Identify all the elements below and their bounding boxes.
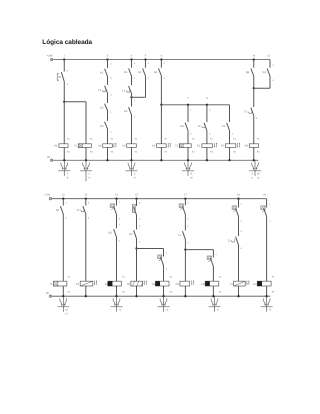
svg-text:H2: H2 <box>201 283 205 286</box>
svg-text:A2: A2 <box>134 151 137 154</box>
svg-text:2: 2 <box>269 220 271 223</box>
svg-text:13: 13 <box>65 308 68 311</box>
svg-text:C1: C1 <box>222 125 226 128</box>
coil C1 ladder2 <box>180 281 190 286</box>
coil C1 <box>202 144 213 148</box>
svg-text:1: 1 <box>187 225 189 228</box>
svg-text:4: 4 <box>134 77 136 80</box>
coil T2 ladder2 (timer) <box>54 281 67 286</box>
wire rung11 loop return <box>269 76 271 88</box>
wire to bottom rail 2 <box>136 286 138 296</box>
svg-text:2: 2 <box>110 131 112 134</box>
node junctions bottom rail 1 <box>63 159 65 161</box>
contact B1 rung14 <box>114 229 117 237</box>
svg-text:2: 2 <box>190 133 192 136</box>
wire <box>116 215 118 229</box>
svg-text:H3: H3 <box>253 283 257 286</box>
svg-text:3: 3 <box>240 230 242 233</box>
node parallel loop <box>253 87 255 89</box>
wire rung5 down + bridge <box>145 76 147 97</box>
wire to junction <box>136 239 138 249</box>
svg-text:9: 9 <box>89 177 91 180</box>
contact cross-reference K1 <box>63 160 65 176</box>
wire <box>131 76 133 85</box>
contact cross-reference H1 ladder2 <box>163 296 165 312</box>
svg-text:T2: T2 <box>228 239 232 242</box>
wire <box>184 215 186 231</box>
svg-text:K2: K2 <box>129 233 133 236</box>
wire rung12 top <box>62 199 64 206</box>
svg-text:18: 18 <box>237 194 240 197</box>
svg-text:A1: A1 <box>122 276 125 279</box>
svg-text:3: 3 <box>119 218 121 221</box>
svg-text:K1: K1 <box>124 71 128 74</box>
wire to bottom rail <box>131 147 133 160</box>
svg-text:A1: A1 <box>90 138 93 141</box>
contact Q1 rung10 <box>251 68 254 76</box>
wire to coil <box>131 115 133 144</box>
wire branch to H1 <box>137 248 164 250</box>
svg-text:20: 20 <box>263 194 266 197</box>
svg-text:A1: A1 <box>210 138 213 141</box>
svg-text:C1: C1 <box>176 283 180 286</box>
contact cross-reference H3 ladder2 <box>266 296 268 312</box>
svg-text:2: 2 <box>67 172 69 175</box>
svg-text:+2: +2 <box>165 308 168 311</box>
svg-text:A2: A2 <box>67 151 70 154</box>
wire branch to coil H1 <box>163 266 165 282</box>
contact K2 rung15 <box>134 230 137 238</box>
svg-text:K6: K6 <box>152 145 156 148</box>
timer contact T1 rung4 <box>129 86 132 94</box>
svg-text:P2: P2 <box>127 283 131 286</box>
wire to junction <box>184 240 186 250</box>
wire drop9 corner <box>229 105 231 122</box>
sensor contact rung20 <box>261 206 265 209</box>
svg-text:A1: A1 <box>110 138 113 141</box>
svg-text:1: 1 <box>65 201 67 204</box>
light-barrier sensor contact rung15 <box>132 204 135 212</box>
contact K3 rung4 <box>129 107 132 115</box>
svg-text:2: 2 <box>240 220 242 223</box>
svg-text:4: 4 <box>187 218 189 221</box>
svg-text:1: 1 <box>119 223 121 226</box>
wire to coil K7 <box>229 131 231 144</box>
svg-text:Q1: Q1 <box>246 71 250 74</box>
svg-text:4: 4 <box>209 133 211 136</box>
coil K5 <box>127 144 137 148</box>
svg-text:1: 1 <box>148 62 150 65</box>
svg-text:P1: P1 <box>76 283 80 286</box>
contact K2 rung5 <box>143 68 146 76</box>
wire branch to coil H2 <box>212 267 214 282</box>
svg-text:8: 8 <box>191 172 193 175</box>
svg-text:A2: A2 <box>164 151 167 154</box>
wire rung17 top <box>184 199 186 206</box>
svg-text:4: 4 <box>240 247 242 250</box>
wire rung4 top <box>131 60 133 68</box>
wire rung5 top <box>145 60 147 68</box>
wire rung15 main to coil <box>136 249 138 282</box>
svg-text:0V: 0V <box>47 156 50 159</box>
contact B1 drop7 <box>185 123 188 131</box>
svg-text:15: 15 <box>135 194 138 197</box>
contact cross-reference T1 <box>85 160 87 181</box>
svg-text:A2: A2 <box>169 291 172 294</box>
wire rung13 long <box>85 214 87 281</box>
svg-text:T3: T3 <box>230 283 234 286</box>
coil H1 (black) <box>155 281 169 286</box>
timer contact T1 rung3 <box>105 86 108 93</box>
wire rung14 long <box>116 237 118 281</box>
svg-text:A1: A1 <box>272 276 275 279</box>
wire to bottom rail <box>107 147 109 160</box>
coil T1 (on-delay timer) <box>78 144 91 148</box>
svg-text:6: 6 <box>161 55 163 58</box>
wire to bottom rail 2 <box>238 286 240 296</box>
wire drop8 <box>206 105 208 122</box>
svg-text:+24V: +24V <box>44 193 50 196</box>
wire rung1 to coil K1 <box>63 102 65 144</box>
wire to bottom rail <box>160 147 162 160</box>
svg-text:A2: A2 <box>90 151 93 154</box>
svg-text:A1: A1 <box>219 276 222 279</box>
svg-text:K4: K4 <box>154 71 158 74</box>
wire rung6 to coil <box>160 105 162 144</box>
wire top rail +24V ladder2 <box>52 198 267 200</box>
coil K3 <box>249 144 258 148</box>
wire bottom rail 0V ladder2 <box>52 295 271 297</box>
svg-text:4: 4 <box>88 216 90 219</box>
svg-text:1: 1 <box>240 203 242 206</box>
svg-text:2: 2 <box>119 239 121 242</box>
wire to bottom rail <box>206 147 208 160</box>
wire below junction <box>131 97 133 106</box>
svg-text:10: 10 <box>252 55 255 58</box>
svg-text:1: 1 <box>269 203 271 206</box>
contact cross-reference T2 <box>187 160 189 176</box>
svg-text:2: 2 <box>89 172 91 175</box>
svg-text:T2: T2 <box>244 111 248 114</box>
sensor contact branch H1 <box>158 255 162 258</box>
wire to bottom rail <box>253 147 255 160</box>
svg-text:K2: K2 <box>138 71 142 74</box>
wire rung20 long <box>266 217 268 282</box>
svg-text:3: 3 <box>88 201 90 204</box>
node junction rung15 branch <box>135 247 137 249</box>
node 0V terminal ladder1 <box>50 159 53 162</box>
wire T1 to bottom rail <box>85 147 87 160</box>
coil H3 (black) <box>257 281 271 286</box>
svg-text:10: 10 <box>257 172 260 175</box>
svg-text:K3: K3 <box>245 145 249 148</box>
svg-text:B1: B1 <box>109 232 113 235</box>
contact T1 rung17 <box>183 231 186 239</box>
wire to bottom rail 2 <box>184 286 186 296</box>
contact cross-reference K1 ladder2 <box>116 296 118 312</box>
coil K1 <box>59 144 68 148</box>
node junctions top rail 2 <box>62 198 64 200</box>
svg-text:2: 2 <box>139 241 141 244</box>
svg-text:3: 3 <box>110 77 112 80</box>
svg-text:A1: A1 <box>169 276 172 279</box>
svg-text:4: 4 <box>110 94 112 97</box>
svg-text:3: 3 <box>67 69 69 72</box>
svg-text:1: 1 <box>110 111 112 114</box>
svg-text:K4: K4 <box>98 145 102 148</box>
wire to bottom rail 2 <box>116 286 118 296</box>
node junction subrail <box>160 104 162 106</box>
wire rung1 upper <box>63 60 65 72</box>
contact K4 rung6 <box>159 68 162 76</box>
wire <box>107 77 109 86</box>
wire <box>107 93 109 103</box>
svg-text:1: 1 <box>139 225 141 228</box>
svg-text:K1: K1 <box>100 71 104 74</box>
sensor contact rung18 <box>232 206 236 209</box>
svg-text:4: 4 <box>163 77 165 80</box>
wire rung17 main to coil <box>184 250 186 282</box>
svg-text:T1: T1 <box>122 90 126 93</box>
wire to coil C1 <box>206 131 208 144</box>
svg-text:1: 1 <box>64 55 66 58</box>
coil T3 <box>234 281 246 286</box>
proximity sensor contact rung14 <box>110 204 114 207</box>
svg-text:14: 14 <box>115 194 118 197</box>
contact K1 rung4 <box>129 68 132 76</box>
svg-text:12: 12 <box>62 194 65 197</box>
wire branch to H2 <box>185 249 213 251</box>
svg-text:T1: T1 <box>77 209 81 212</box>
svg-text:K1: K1 <box>54 145 58 148</box>
wire to bottom rail 2 <box>62 286 64 296</box>
wire branch bridge to T1 <box>64 101 86 103</box>
svg-text:A1: A1 <box>164 138 167 141</box>
svg-text:3: 3 <box>251 172 253 175</box>
contact T2 rung18 <box>236 237 239 245</box>
svg-text:4: 4 <box>131 55 133 58</box>
svg-text:4: 4 <box>251 177 253 180</box>
wire top rail +24V ladder1 <box>53 59 270 61</box>
svg-text:T1: T1 <box>98 89 102 92</box>
svg-text:12: 12 <box>257 177 260 180</box>
timer contact T2 drop8 <box>204 123 207 131</box>
svg-text:9: 9 <box>67 177 69 180</box>
node junction rung17 branch <box>184 248 186 250</box>
node +24V terminal ladder2 <box>49 197 52 200</box>
wire to bottom rail 2 <box>266 286 268 296</box>
coil K1 ladder2 (black) <box>108 281 122 286</box>
node junction rung1/branch <box>63 101 65 103</box>
svg-text:9: 9 <box>134 177 136 180</box>
wire rung3 top <box>107 60 109 69</box>
svg-text:8: 8 <box>206 97 208 100</box>
wire <box>238 217 240 237</box>
svg-text:2: 2 <box>163 62 165 65</box>
contact cross-reference K3 <box>254 160 256 176</box>
svg-text:1: 1 <box>134 99 136 102</box>
svg-text:11: 11 <box>267 55 270 58</box>
svg-text:2: 2 <box>148 77 150 80</box>
timer contact T2 rung10 <box>251 108 254 116</box>
svg-text:A1: A1 <box>257 138 260 141</box>
svg-text:2: 2 <box>134 116 136 119</box>
svg-text:T2: T2 <box>175 145 179 148</box>
wire <box>107 111 109 122</box>
svg-text:C1: C1 <box>197 145 201 148</box>
wire to bottom rail <box>187 147 189 160</box>
sensor contact rung17 <box>179 204 183 207</box>
svg-text:A2: A2 <box>219 291 222 294</box>
contact K3 rung11 <box>267 68 270 76</box>
coil K4 <box>103 144 113 148</box>
node junctions bottom rail 2 <box>62 295 64 297</box>
svg-text:5: 5 <box>145 55 147 58</box>
svg-text:K3: K3 <box>100 125 104 128</box>
svg-text:+2: +2 <box>216 308 219 311</box>
node subrail 8 <box>206 104 208 106</box>
svg-text:A1: A1 <box>67 138 70 141</box>
node junction rung4/5 <box>130 96 132 98</box>
wire rung6 down <box>160 76 162 105</box>
svg-text:A2: A2 <box>272 291 275 294</box>
wire bottom rail 0V ladder1 <box>53 159 259 161</box>
svg-text:A2: A2 <box>67 291 70 294</box>
wire rung13 top <box>85 199 87 206</box>
wire to coil T2 <box>187 131 189 144</box>
node junctions on top rail 1 <box>63 58 65 60</box>
svg-text:4: 4 <box>272 79 274 82</box>
svg-text:A2: A2 <box>192 151 195 154</box>
svg-text:K5: K5 <box>122 145 126 148</box>
wire to bottom rail 2 <box>163 286 165 296</box>
svg-text:T2: T2 <box>197 125 201 128</box>
svg-text:17: 17 <box>65 313 68 316</box>
coil K7 <box>225 144 235 148</box>
svg-text:A1: A1 <box>233 138 236 141</box>
svg-text:K3: K3 <box>263 71 267 74</box>
svg-text:A1: A1 <box>192 138 195 141</box>
wire to bottom rail 2 <box>85 286 87 296</box>
wire rung10 to node <box>253 76 255 88</box>
svg-text:A2: A2 <box>257 151 260 154</box>
svg-text:3: 3 <box>272 64 274 67</box>
svg-text:K1: K1 <box>105 283 109 286</box>
contact K3 rung12 <box>60 206 63 214</box>
wire <box>107 129 109 144</box>
svg-text:4: 4 <box>67 83 69 86</box>
node 0V terminal ladder2 <box>49 295 52 298</box>
svg-text:2: 2 <box>110 62 112 65</box>
svg-text:A1: A1 <box>67 276 70 279</box>
svg-text:13: 13 <box>84 194 87 197</box>
svg-text:10: 10 <box>190 177 193 180</box>
wire rung12 long <box>62 214 64 281</box>
coil K6 <box>157 144 167 148</box>
svg-text:1: 1 <box>119 201 121 204</box>
svg-text:T1: T1 <box>74 145 78 148</box>
svg-text:A2: A2 <box>233 151 236 154</box>
coil P1 (flasher) <box>80 281 93 286</box>
wire rung18 long <box>238 245 240 281</box>
contact K1 rung3 <box>105 69 108 77</box>
contact C1 drop9 <box>227 123 230 131</box>
svg-text:2: 2 <box>215 253 217 256</box>
wire rung14 top <box>116 199 118 206</box>
wire to coil K3 <box>253 116 255 144</box>
svg-text:A1: A1 <box>134 138 137 141</box>
wire rung6 top <box>160 60 162 68</box>
wire rung11 down from rail <box>269 60 271 68</box>
svg-text:K3: K3 <box>56 209 60 212</box>
svg-text:3: 3 <box>107 55 109 58</box>
svg-text:3: 3 <box>139 201 141 204</box>
wire subrail <box>161 104 229 106</box>
svg-text:K2: K2 <box>100 106 104 109</box>
wire K1 to bottom rail <box>63 147 65 160</box>
svg-text:B1: B1 <box>181 125 185 128</box>
wire rung18 top <box>238 199 240 208</box>
coil T2 (timer) <box>179 144 191 148</box>
contact cross-reference K5 <box>131 160 133 176</box>
svg-text:A2: A2 <box>210 151 213 154</box>
contact cross-reference T2 ladder2 <box>62 296 64 312</box>
svg-text:A2: A2 <box>110 151 113 154</box>
contact K3 rung3 <box>105 122 108 129</box>
svg-text:T2: T2 <box>49 283 53 286</box>
svg-text:+2: +2 <box>118 308 121 311</box>
node +24V terminal (ladder 1) <box>50 58 53 61</box>
coil H2 (black) <box>205 281 219 286</box>
svg-text:A2: A2 <box>122 291 125 294</box>
wire to bottom rail 2 <box>212 286 214 296</box>
svg-text:3: 3 <box>187 201 189 204</box>
svg-text:3: 3 <box>134 62 136 65</box>
svg-text:+24V: +24V <box>47 54 53 57</box>
svg-text:4: 4 <box>139 218 141 221</box>
timer contact T1 rung13 <box>83 206 86 214</box>
node subrail 7 <box>187 104 189 106</box>
svg-text:7: 7 <box>187 97 189 100</box>
wire <box>136 215 138 230</box>
svg-text:T1: T1 <box>178 234 182 237</box>
svg-text:0V: 0V <box>46 292 49 295</box>
svg-text:17: 17 <box>184 194 187 197</box>
wire rung20 corner <box>266 199 268 208</box>
sensor contact branch H2 <box>207 256 211 259</box>
contact cross-reference H2 ladder2 <box>214 296 216 312</box>
svg-text:2: 2 <box>187 242 189 245</box>
wire to bottom rail <box>229 147 231 160</box>
wire drop7 <box>187 105 189 122</box>
wire rung10 top <box>253 60 255 68</box>
contact K2 rung3 <box>105 104 108 111</box>
svg-text:Lógica cableada: Lógica cableada <box>42 39 92 46</box>
wire rung15 top <box>136 199 138 206</box>
svg-text:3: 3 <box>209 109 211 112</box>
svg-text:2: 2 <box>65 216 67 219</box>
svg-text:1: 1 <box>166 252 168 255</box>
svg-text:2: 2 <box>232 133 234 136</box>
pushbutton S1 contact <box>61 72 64 81</box>
svg-text:2: 2 <box>134 172 136 175</box>
svg-text:4: 4 <box>256 117 258 120</box>
svg-text:+2: +2 <box>268 308 271 311</box>
svg-text:K7: K7 <box>221 145 225 148</box>
svg-text:2: 2 <box>166 268 168 271</box>
wire rung10 mid <box>253 88 255 107</box>
svg-text:1: 1 <box>190 109 192 112</box>
